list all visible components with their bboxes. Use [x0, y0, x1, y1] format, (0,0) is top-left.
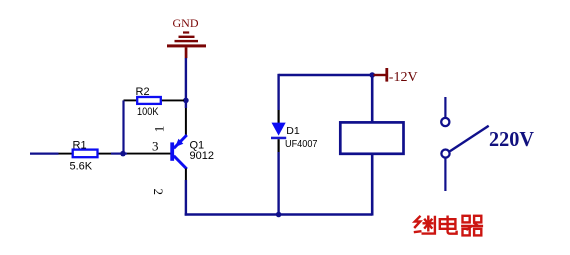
wire diode top pin (black)	[278, 110, 280, 124]
node junction -12V / relay top	[369, 72, 375, 78]
wire contact top lead	[444, 97, 446, 118]
svg-text:220V: 220V	[489, 127, 534, 151]
char 器	[461, 216, 483, 236]
svg-text:1: 1	[151, 126, 166, 133]
svg-text:100K: 100K	[137, 106, 159, 118]
relay coil	[340, 122, 403, 153]
svg-text:5.6K: 5.6K	[70, 160, 93, 172]
relay contact top	[441, 118, 449, 126]
svg-text:GND: GND	[173, 16, 199, 30]
svg-text:2: 2	[151, 188, 166, 195]
wire diode top	[277, 74, 279, 110]
label 继电器 (drawn strokes)	[414, 216, 483, 236]
switch blade	[450, 126, 489, 151]
ground	[167, 16, 206, 58]
svg-text:R2: R2	[136, 86, 150, 98]
wire contact bottom lead	[444, 158, 446, 191]
svg-text:R1: R1	[73, 139, 87, 151]
node junction R1/base	[120, 151, 126, 157]
svg-text:-12V: -12V	[389, 70, 418, 85]
transistor Q1	[170, 135, 214, 169]
char 电	[440, 216, 457, 234]
wire pin2 segment (black)	[185, 169, 187, 181]
wire left input	[30, 153, 59, 155]
wire relay top lead	[371, 75, 374, 122]
wire collector down	[185, 180, 187, 216]
wire top horizontal	[279, 74, 373, 76]
char 继	[414, 216, 435, 234]
node junction diode bottom	[276, 212, 282, 218]
node junction R2/main vertical	[183, 98, 189, 104]
wire relay bottom lead	[371, 154, 374, 216]
svg-text:D1: D1	[286, 125, 300, 137]
diode D1	[271, 123, 318, 151]
resistor R2	[124, 86, 185, 118]
relay contact bottom	[441, 150, 449, 158]
svg-text:UF4007: UF4007	[285, 138, 318, 150]
wire R2-left down to R1 junction	[122, 100, 124, 153]
svg-text:3: 3	[152, 139, 159, 154]
wire diode bottom	[277, 152, 279, 215]
wire pin3 segment (black)	[127, 153, 171, 155]
wire pin1 segment (black)	[185, 108, 187, 135]
wire diode bottom pin (black)	[278, 139, 280, 152]
svg-text:9012: 9012	[190, 150, 214, 162]
wire bottom horizontal	[185, 213, 373, 215]
wire base link	[111, 153, 127, 155]
resistor R1	[59, 139, 112, 172]
power -12V	[374, 68, 418, 85]
wire GND stem down to emitter	[185, 58, 187, 108]
